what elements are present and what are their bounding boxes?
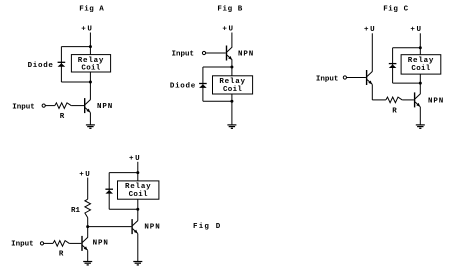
transistor Q2 NPN (Fig C) — [415, 92, 421, 107]
wire input to base (Fig C) — [347, 77, 366, 79]
wire coil bottom lead (Fig D) — [137, 199, 139, 209]
svg-text:R: R — [392, 107, 397, 115]
diode D1 (Fig A) — [58, 62, 66, 66]
svg-text:Coil: Coil — [223, 86, 242, 94]
svg-text:+U: +U — [129, 155, 141, 163]
node junction top (Fig C) — [419, 46, 422, 49]
wire +U stem (Fig B) — [231, 33, 233, 48]
transistor Q1 NPN (Fig B) — [227, 46, 233, 61]
wire emitter (Fig A) — [89, 113, 91, 125]
node junction R1/collector (Fig D) — [86, 225, 89, 228]
ground (Fig C) — [416, 125, 425, 128]
supply +U (Fig B) — [222, 26, 234, 34]
supply +U right (Fig D) — [129, 155, 141, 163]
svg-text:Relay: Relay — [219, 78, 246, 86]
wire diode branch left (Fig A) — [60, 47, 62, 82]
node junction bottom (Fig A) — [89, 81, 92, 84]
wire top horizontal (Fig C) — [393, 47, 421, 49]
wire R1 to junction (Fig D) — [87, 218, 89, 227]
wire resistor to base (Fig C) — [402, 99, 414, 101]
label Fig C — [383, 5, 409, 13]
input terminal (Fig A) — [42, 104, 45, 107]
resistor R1 (Fig D) — [85, 199, 91, 217]
svg-text:Input: Input — [12, 103, 35, 111]
svg-text:R: R — [60, 113, 65, 121]
node junction bottom (Fig B) — [230, 100, 233, 103]
wire junction to Q1 collector (Fig D) — [87, 227, 89, 238]
wire Q1 collector to Q2 base (Fig D) — [88, 226, 132, 228]
supply +U left (Fig C) — [364, 26, 376, 34]
svg-text:Fig A: Fig A — [79, 6, 104, 14]
diode D1 (Fig B) — [199, 84, 207, 88]
wire input to resistor (Fig D) — [44, 242, 53, 244]
svg-text:+U: +U — [222, 26, 234, 34]
svg-text:+U: +U — [79, 171, 91, 179]
wire collector Q2 (Fig D) — [137, 209, 139, 220]
wire top horizontal (Fig D) — [109, 172, 138, 174]
label NPN (Fig C) — [428, 97, 444, 105]
wire Q1 emitter (Fig D) — [87, 250, 89, 261]
wire input to resistor (Fig A) — [45, 105, 55, 107]
wire coil bottom lead (Fig A) — [89, 72, 91, 82]
input terminal (Fig C) — [343, 76, 346, 79]
svg-text:Input: Input — [172, 51, 195, 59]
svg-text:Relay: Relay — [125, 183, 152, 191]
svg-text:Coil: Coil — [129, 191, 148, 199]
transistor Q1 NPN (Fig D) — [82, 236, 88, 251]
label NPN Q1 (Fig D) — [93, 240, 109, 248]
label Input (Fig C) — [316, 75, 339, 83]
wire diode branch left (Fig B) — [202, 67, 204, 101]
diode D1 (Fig C) — [389, 64, 397, 68]
svg-text:R: R — [59, 251, 64, 259]
label Fig B — [217, 5, 243, 13]
supply +U left (Fig D) — [79, 171, 91, 179]
wire to ground (Fig B) — [231, 101, 233, 125]
svg-text:Fig C: Fig C — [383, 5, 409, 13]
label Diode (Fig A) — [28, 62, 54, 70]
wire resistor to base (Fig A) — [71, 105, 84, 107]
svg-text:NPN: NPN — [238, 51, 254, 59]
relay coil K1 (Fig D) — [118, 181, 159, 199]
wire coil top lead (Fig D) — [137, 173, 139, 181]
wire emitter (Fig B) — [231, 60, 233, 67]
transistor Q1 NPN (Fig A) — [85, 98, 91, 113]
diode D1 (Fig D) — [105, 189, 113, 193]
svg-text:+U: +U — [364, 26, 376, 34]
svg-text:Diode: Diode — [28, 62, 54, 70]
wire top horizontal (Fig B) — [203, 66, 232, 68]
wire +U stem left (Fig C) — [371, 33, 373, 71]
label R (Fig C) — [392, 107, 397, 115]
label NPN Q2 (Fig D) — [144, 223, 160, 231]
svg-text:NPN: NPN — [97, 103, 113, 111]
wire coil top lead (Fig C) — [419, 48, 421, 55]
svg-text:+U: +U — [410, 26, 422, 34]
svg-text:Relay: Relay — [78, 57, 105, 65]
svg-text:Input: Input — [11, 241, 34, 249]
label R (Fig A) — [60, 113, 65, 121]
input terminal (Fig B) — [202, 51, 205, 54]
relay coil K1 (Fig B) — [213, 76, 253, 94]
wire coil top lead (Fig B) — [231, 67, 233, 76]
svg-text:NPN: NPN — [428, 97, 444, 105]
svg-text:Fig B: Fig B — [217, 5, 243, 13]
svg-text:Coil: Coil — [411, 65, 430, 73]
svg-text:NPN: NPN — [144, 223, 160, 231]
svg-text:Diode: Diode — [170, 83, 196, 91]
relay coil K1 (Fig C) — [401, 55, 441, 74]
wire bottom horizontal (Fig C) — [393, 82, 421, 84]
label Diode (Fig B) — [170, 83, 196, 91]
wire top horizontal (Fig A) — [61, 46, 90, 48]
wire +U stem (Fig A) — [89, 33, 91, 47]
supply +U (Fig A) — [81, 26, 93, 34]
svg-text:Coil: Coil — [81, 65, 100, 73]
supply +U right (Fig C) — [410, 26, 422, 34]
node junction top (Fig A) — [89, 45, 92, 48]
svg-text:Fig D: Fig D — [193, 223, 222, 231]
wire +U stem left (Fig D) — [87, 178, 89, 200]
svg-text:NPN: NPN — [93, 240, 109, 248]
wire diode branch left (Fig C) — [392, 48, 394, 83]
relay coil K1 (Fig A) — [71, 55, 110, 73]
label Input (Fig D) — [11, 241, 34, 249]
label R (Fig D) — [59, 251, 64, 259]
wire bottom horizontal (Fig B) — [203, 100, 232, 102]
node junction bottom (Fig D) — [136, 208, 139, 211]
resistor R (Fig A) — [55, 103, 71, 109]
wire coil top lead (Fig A) — [89, 47, 91, 55]
wire emitter to ground (Fig C) — [419, 107, 421, 125]
wire coil bottom lead (Fig C) — [419, 74, 421, 83]
wire coil bottom lead (Fig B) — [231, 94, 233, 101]
wire collector (Fig A) — [89, 82, 91, 100]
resistor R (Fig C) — [386, 97, 402, 103]
node junction bottom (Fig C) — [419, 82, 422, 85]
label NPN (Fig A) — [97, 103, 113, 111]
ground Q1 (Fig D) — [83, 262, 92, 265]
wire +U stem right (Fig C) — [419, 33, 421, 48]
wire +U stem right (Fig D) — [137, 162, 139, 173]
svg-text:Relay: Relay — [408, 57, 435, 65]
label Fig A — [79, 6, 104, 14]
wire collector (Fig C) — [419, 83, 421, 94]
wire resistor to base (Fig D) — [69, 242, 81, 244]
svg-text:R1: R1 — [71, 207, 81, 215]
label Input (Fig B) — [172, 51, 195, 59]
wire emitter down (Fig C) — [371, 84, 373, 100]
ground (Fig A) — [86, 125, 95, 128]
label Input (Fig A) — [12, 103, 35, 111]
label R1 (Fig D) — [71, 207, 81, 215]
transistor Q2 NPN (Fig D) — [132, 219, 138, 234]
wire emitter to resistor (Fig C) — [372, 99, 386, 101]
wire bottom horizontal (Fig D) — [109, 208, 138, 210]
wire bottom horizontal (Fig A) — [61, 81, 90, 83]
label NPN (Fig B) — [238, 51, 254, 59]
svg-text:Input: Input — [316, 75, 339, 83]
transistor Q1 NPN (Fig C) — [367, 70, 373, 85]
wire input to base (Fig B) — [206, 52, 226, 54]
input terminal (Fig D) — [40, 242, 43, 245]
wire diode branch left (Fig D) — [108, 173, 110, 210]
node junction top (Fig B) — [230, 66, 233, 69]
label Fig D — [193, 223, 222, 231]
svg-text:+U: +U — [81, 26, 93, 34]
node junction top (Fig D) — [136, 171, 139, 174]
ground (Fig B) — [227, 125, 236, 128]
wire Q2 emitter (Fig D) — [137, 234, 139, 262]
resistor R (Fig D) — [53, 241, 69, 247]
ground Q2 (Fig D) — [133, 262, 142, 265]
